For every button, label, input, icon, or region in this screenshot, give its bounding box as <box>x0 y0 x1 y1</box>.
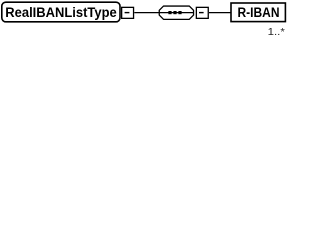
complexType RealIBANListType box <box>2 2 120 22</box>
svg-text:1..*: 1..* <box>268 26 285 38</box>
wire from handle H1 to sequence compositor <box>134 12 159 14</box>
background <box>0 0 290 45</box>
expand handle H1 (minus box) <box>122 7 134 18</box>
svg-text:R-IBAN: R-IBAN <box>238 5 280 20</box>
wire from handle H2 to element R-IBAN <box>209 12 231 14</box>
element R-IBAN box <box>231 3 285 22</box>
sequence compositor <box>159 6 193 19</box>
expand handle H2 (minus box) <box>196 7 208 18</box>
svg-text:RealIBANListType: RealIBANListType <box>5 5 117 20</box>
